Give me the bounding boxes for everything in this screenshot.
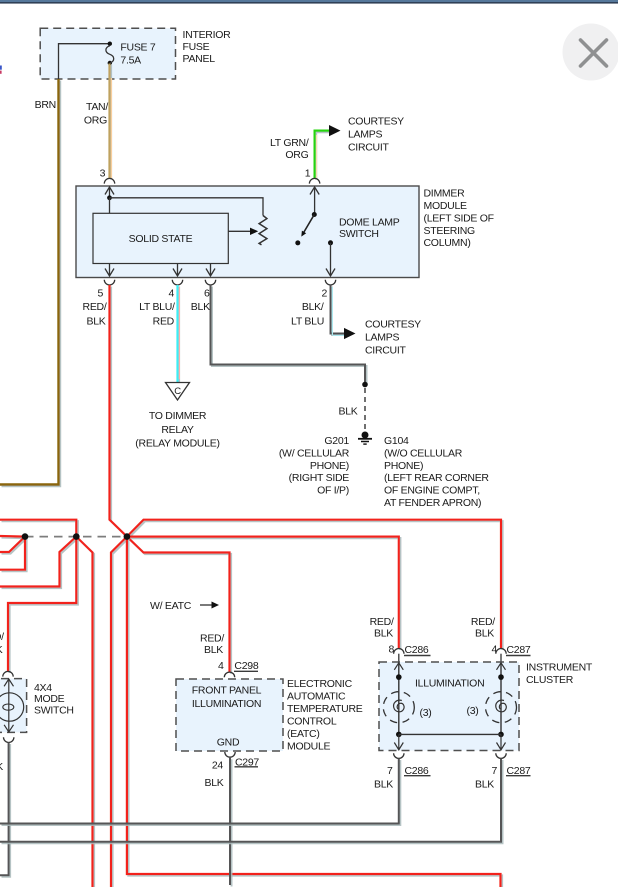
4x4 mode switch box — [0, 679, 27, 733]
svg-text:SWITCH: SWITCH — [339, 228, 379, 240]
dome lamp switch label — [339, 217, 400, 241]
svg-text:ORG: ORG — [285, 149, 308, 161]
svg-text:AT FENDER APRON): AT FENDER APRON) — [384, 497, 481, 509]
svg-text:OF ENGINE COMPT,: OF ENGINE COMPT, — [384, 485, 480, 497]
pin 3 connector arc — [104, 178, 114, 183]
pin 4 inner arrow — [173, 264, 182, 277]
pin 7 C286 label — [387, 765, 430, 777]
svg-text:CIRCUIT: CIRCUIT — [365, 345, 406, 357]
svg-text:CLUSTER: CLUSTER — [526, 674, 574, 686]
svg-text:6: 6 — [204, 288, 210, 300]
cluster bulb left — [383, 663, 414, 750]
svg-text:BRN: BRN — [35, 99, 56, 111]
label courtesy lamps circuit top — [348, 116, 404, 154]
pin 1 label — [305, 167, 311, 179]
svg-text:C298: C298 — [234, 660, 258, 672]
label LT GRN/ORG — [270, 137, 309, 161]
svg-text:W/ EATC: W/ EATC — [150, 600, 192, 612]
label W/ EATC — [150, 600, 219, 612]
svg-text:4X4: 4X4 — [34, 682, 52, 694]
label illumination — [415, 678, 484, 690]
node splice S1 — [22, 533, 29, 540]
node pin3 junction — [107, 195, 112, 200]
svg-text:(3): (3) — [467, 705, 479, 717]
svg-text:BLK: BLK — [338, 406, 357, 418]
svg-text:(RIGHT SIDE: (RIGHT SIDE — [289, 472, 350, 484]
svg-text:4: 4 — [168, 288, 174, 300]
wire pin6 BLK to ground — [211, 285, 366, 385]
svg-text:RED/: RED/ — [0, 631, 4, 643]
pin 2 label — [291, 288, 327, 328]
pin 4 C298 label — [218, 660, 259, 672]
wire LT GRN/ORG — [315, 131, 330, 178]
svg-text:TAN/: TAN/ — [86, 101, 108, 113]
pin 5 connector arc — [104, 280, 114, 285]
pin 1 connector arc — [309, 178, 319, 183]
pin 7 C287 label — [491, 765, 530, 777]
svg-text:CONTROL: CONTROL — [287, 716, 337, 728]
svg-text:MODE: MODE — [34, 693, 65, 705]
svg-text:TEMPERATURE: TEMPERATURE — [287, 703, 363, 715]
pin 4 label — [139, 288, 175, 328]
label G104 — [384, 435, 489, 509]
dimmer module label — [424, 188, 494, 250]
label (3) right — [467, 705, 479, 717]
wire bulbs bottom link — [399, 733, 501, 735]
label BRN — [35, 99, 56, 111]
label BLK ground — [338, 406, 357, 418]
pin 4 C287 label — [491, 644, 530, 657]
wire 4x4 BLK down — [0, 743, 9, 876]
svg-text:LT GRN/: LT GRN/ — [270, 137, 309, 149]
svg-text:5: 5 — [97, 288, 103, 300]
node splice S2 — [73, 533, 80, 540]
wire red S1 down left — [0, 537, 25, 570]
wire cluster pin7 C287 BLK — [0, 759, 501, 842]
svg-text:BLK: BLK — [86, 316, 105, 328]
label RED/BLK cluster left — [370, 616, 394, 640]
svg-text:7.5A: 7.5A — [120, 55, 141, 67]
cluster connector arc pin7 right — [496, 753, 506, 758]
svg-text:MODULE: MODULE — [424, 200, 468, 212]
wire red S1 diagonal left — [0, 537, 25, 552]
svg-text:PANEL: PANEL — [183, 53, 216, 65]
svg-text:RED/: RED/ — [471, 616, 495, 628]
svg-text:2: 2 — [321, 288, 327, 300]
pin 24 C297 label — [212, 756, 260, 771]
label EATC module — [287, 678, 363, 753]
svg-text:LT BLU/: LT BLU/ — [139, 301, 175, 313]
wire red S2 lower left — [0, 537, 76, 587]
wire red S3 to front panel C298 — [127, 537, 230, 673]
wire inside fuse panel — [59, 44, 110, 79]
pin 5 inner arrow — [105, 264, 114, 277]
node ground junction — [362, 382, 368, 388]
node splice S3 — [124, 533, 131, 540]
svg-text:BLK: BLK — [204, 644, 223, 656]
label (3) left — [420, 707, 432, 719]
wire GND BLK down — [229, 758, 231, 885]
wire pin5 RED/BLK — [110, 285, 127, 537]
svg-text:FRONT PANEL: FRONT PANEL — [192, 684, 262, 696]
svg-text:4: 4 — [491, 644, 497, 656]
svg-text:GND: GND — [217, 736, 240, 748]
svg-text:(W/ CELLULAR: (W/ CELLULAR — [279, 447, 350, 459]
svg-text:4: 4 — [218, 660, 224, 672]
connector C triangle to dimmer relay — [166, 383, 190, 401]
svg-text:DOME LAMP: DOME LAMP — [339, 217, 400, 229]
svg-text:7: 7 — [491, 765, 497, 777]
close button — [563, 24, 618, 81]
pin 3 inner arrow — [105, 187, 114, 198]
svg-text:INTERIOR: INTERIOR — [183, 29, 232, 41]
svg-text:1: 1 — [305, 167, 311, 179]
svg-text:AUTOMATIC: AUTOMATIC — [287, 691, 346, 703]
cluster connector arc pin8 — [394, 649, 404, 663]
svg-text:BLK: BLK — [0, 761, 3, 773]
wiper arrow to rheostat — [228, 228, 258, 235]
solid state box — [93, 213, 228, 263]
label front panel illumination — [192, 684, 262, 748]
pin 6 connector arc — [205, 280, 215, 285]
svg-text:8: 8 — [388, 644, 394, 656]
svg-text:CIRCUIT: CIRCUIT — [348, 142, 389, 154]
svg-text:OF I/P): OF I/P) — [317, 485, 349, 497]
wire pin4 LT BLU/RED — [178, 285, 180, 384]
svg-text:(LEFT REAR CORNER: (LEFT REAR CORNER — [384, 472, 489, 484]
dashed BLK wire to ground — [364, 388, 366, 430]
svg-text:BLK: BLK — [0, 644, 3, 656]
svg-text:BLK: BLK — [204, 777, 223, 789]
label BLK cluster right — [475, 778, 494, 790]
svg-text:RED: RED — [153, 316, 175, 328]
interior fuse panel box — [40, 28, 175, 79]
svg-text:BLK: BLK — [191, 301, 210, 313]
svg-text:C287: C287 — [507, 644, 531, 656]
arrowhead courtesy lamps bottom — [344, 328, 356, 339]
wire red to splice S2 from left top — [0, 520, 76, 537]
svg-text:ELECTRONIC: ELECTRONIC — [287, 678, 353, 690]
svg-text:BLK: BLK — [475, 628, 494, 640]
label courtesy lamps circuit bottom — [365, 319, 421, 357]
svg-text:FUSE 7: FUSE 7 — [120, 42, 156, 54]
instrument cluster box — [379, 662, 519, 751]
svg-text:(W/O CELLULAR: (W/O CELLULAR — [384, 447, 463, 459]
dome lamp switch — [295, 187, 335, 276]
wire red S3 down to bottom — [127, 537, 501, 887]
svg-text:RED/: RED/ — [200, 632, 224, 644]
label BLK cluster left — [374, 778, 393, 790]
svg-text:(RELAY MODULE): (RELAY MODULE) — [135, 438, 219, 450]
svg-text:ILLUMINATION: ILLUMINATION — [192, 698, 261, 710]
left cut label RED/BLK — [0, 631, 4, 656]
C297 connector arc — [225, 752, 235, 757]
wire red S3 down left — [111, 537, 127, 887]
wire red to splice S1 left — [0, 535, 25, 538]
ground symbol G201/G104 — [358, 432, 372, 445]
svg-text:PHONE): PHONE) — [384, 460, 423, 472]
label TAN/ORG — [84, 101, 108, 127]
svg-text:DIMMER: DIMMER — [424, 188, 466, 200]
wire pin2 BLK/LT BLU — [331, 285, 345, 335]
left cut label BLK bottom — [0, 761, 3, 773]
wire red S2 down right — [76, 537, 92, 887]
4x4 connector arc top — [3, 671, 13, 676]
splice dashed link — [25, 536, 127, 538]
svg-text:FUSE: FUSE — [183, 41, 210, 53]
arrowhead courtesy lamps top — [329, 125, 341, 136]
svg-text:MODULE: MODULE — [287, 741, 331, 753]
svg-text:BLK: BLK — [374, 628, 393, 640]
pin 4 connector arc — [172, 280, 182, 285]
svg-text:RELAY: RELAY — [161, 424, 194, 436]
svg-text:BLK: BLK — [374, 778, 393, 790]
label G201 — [279, 435, 350, 497]
pin 6 inner arrow — [206, 264, 215, 277]
svg-text:3: 3 — [100, 167, 106, 179]
4x4 connector arc bottom — [4, 737, 14, 742]
svg-text:SWITCH: SWITCH — [34, 705, 74, 717]
label instrument cluster — [526, 661, 593, 686]
front panel illumination box — [176, 679, 283, 751]
svg-text:LAMPS: LAMPS — [348, 129, 382, 141]
svg-text:ILLUMINATION: ILLUMINATION — [415, 678, 484, 690]
fuse F7 7.5A — [106, 42, 156, 67]
svg-text:(EATC): (EATC) — [287, 728, 320, 740]
svg-text:BLK: BLK — [475, 778, 494, 790]
svg-text:LAMPS: LAMPS — [365, 332, 399, 344]
wire cluster pin7 C286 BLK — [0, 759, 399, 824]
left-edge text fragment — [0, 66, 2, 74]
cluster connector arc pin7 left — [394, 753, 404, 758]
cluster connector arc pin4 — [496, 649, 506, 663]
svg-text:C: C — [174, 386, 181, 397]
wire TAN/ORG — [110, 64, 112, 179]
wire red S2 to 4x4 switch — [8, 537, 76, 672]
pin 2 connector arc — [325, 280, 335, 285]
label to dimmer relay — [135, 410, 219, 450]
cluster bulb right — [486, 663, 517, 750]
svg-text:LT BLU: LT BLU — [291, 316, 324, 328]
svg-text:TO DIMMER: TO DIMMER — [149, 410, 207, 422]
dimmer module box — [76, 186, 419, 278]
C298 connector arc — [224, 672, 234, 677]
svg-text:PHONE): PHONE) — [310, 460, 349, 472]
svg-text:COURTESY: COURTESY — [365, 319, 421, 331]
svg-text:G104: G104 — [384, 435, 409, 447]
svg-text:ORG: ORG — [84, 115, 107, 127]
4x4 bulb symbol — [0, 679, 24, 732]
wire pin3 to solid state — [109, 198, 111, 214]
rheostat resistor — [259, 216, 267, 245]
wire red S3 to instrument cluster pin4 — [127, 520, 501, 649]
label RED/BLK C298 — [200, 632, 224, 656]
top browser bar — [0, 0, 618, 4]
svg-text:RED/: RED/ — [83, 301, 107, 313]
svg-text:STEERING: STEERING — [424, 225, 476, 237]
svg-text:RED/: RED/ — [370, 616, 394, 628]
wire pin3 to rheostat — [110, 198, 264, 216]
wire red S3 to instrument cluster pin8 — [127, 537, 399, 649]
label BLK C297 — [204, 777, 223, 789]
label 4x4 mode switch — [34, 682, 74, 717]
svg-text:COURTESY: COURTESY — [348, 116, 404, 128]
svg-text:(LEFT SIDE OF: (LEFT SIDE OF — [424, 212, 494, 224]
pin 6 label — [191, 288, 210, 314]
svg-text:INSTRUMENT: INSTRUMENT — [526, 661, 593, 673]
interior fuse panel label — [183, 29, 232, 65]
svg-text:7: 7 — [387, 765, 393, 777]
label RED/BLK cluster right — [471, 616, 495, 640]
wire BRN — [0, 79, 59, 485]
pin 5 label — [83, 288, 107, 328]
svg-text:24: 24 — [212, 760, 224, 772]
pin 3 label — [100, 167, 106, 179]
pin 8 C286 label — [388, 644, 430, 657]
svg-text:COLUMN): COLUMN) — [424, 237, 471, 249]
svg-text:(3): (3) — [420, 707, 432, 719]
svg-text:G201: G201 — [324, 435, 349, 447]
svg-text:SOLID STATE: SOLID STATE — [129, 233, 193, 245]
svg-text:BLK/: BLK/ — [302, 301, 324, 313]
svg-text:C286: C286 — [405, 644, 429, 656]
